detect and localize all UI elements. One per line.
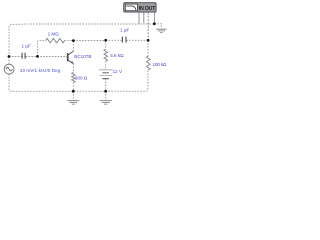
svg-text:IN OUT: IN OUT [139, 6, 156, 12]
svg-text:12 V: 12 V [113, 69, 123, 74]
svg-text:10 mV/1 kHz/0 Deg: 10 mV/1 kHz/0 Deg [20, 68, 61, 73]
svg-text:1 µF: 1 µF [120, 28, 129, 33]
svg-text:1 MΩ: 1 MΩ [48, 32, 60, 37]
svg-text:300 Ω: 300 Ω [75, 75, 88, 80]
svg-text:1 µF: 1 µF [22, 44, 31, 49]
svg-text:100 kΩ: 100 kΩ [153, 62, 167, 67]
svg-text:5.6 kΩ: 5.6 kΩ [110, 53, 124, 58]
svg-text:BC107B: BC107B [74, 54, 91, 59]
